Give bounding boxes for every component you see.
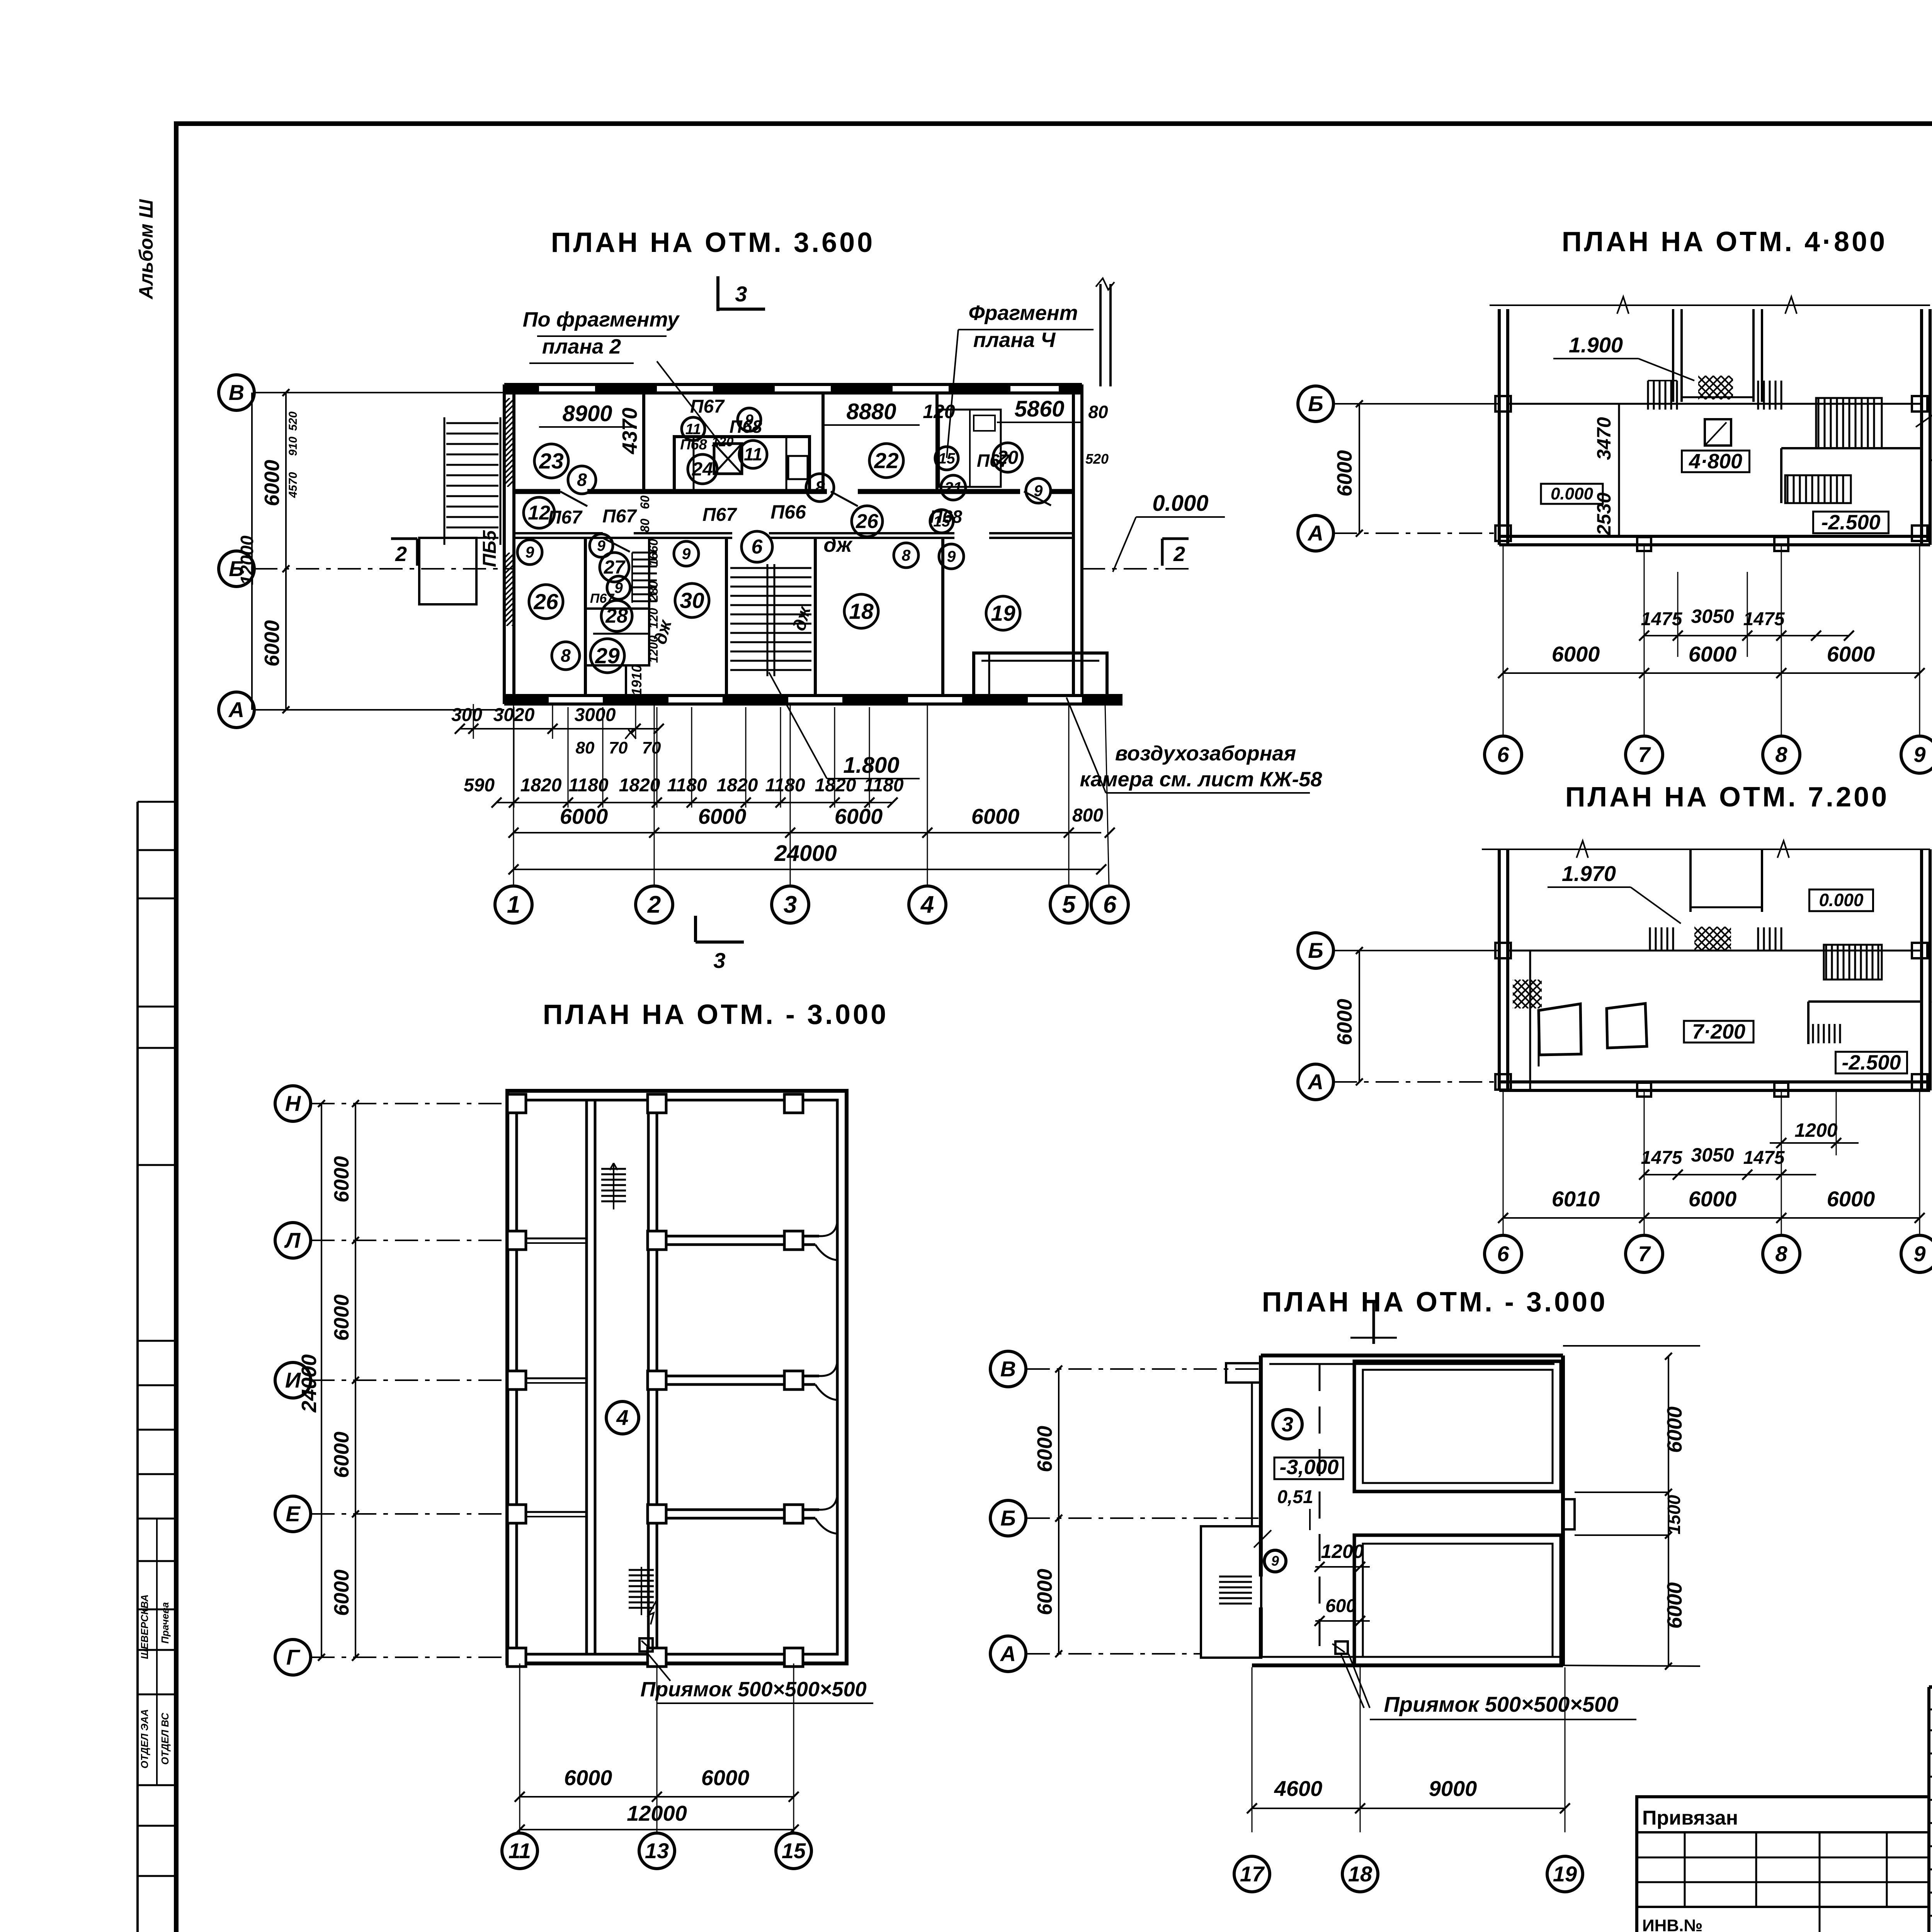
svg-text:А: А <box>228 697 244 722</box>
svg-text:9: 9 <box>1913 1242 1925 1266</box>
svg-text:300: 300 <box>451 705 482 725</box>
svg-text:8: 8 <box>561 646 571 666</box>
svg-text:В: В <box>1000 1357 1016 1381</box>
svg-text:П67: П67 <box>590 591 615 606</box>
svg-text:6000: 6000 <box>698 804 747 828</box>
plan2 bottom dim 6000s <box>1498 642 1925 678</box>
plan4 axis circle 15 <box>776 1833 811 1869</box>
album III vertical label <box>135 199 157 300</box>
svg-text:4370: 4370 <box>618 408 641 454</box>
plan5 tank lower <box>1354 1535 1561 1665</box>
svg-text:П67: П67 <box>548 507 583 528</box>
plan5 left walls and entrance <box>1201 1355 1261 1658</box>
axis row circle B <box>219 551 254 587</box>
section mark 3 bottom <box>696 916 744 973</box>
svg-text:7: 7 <box>1638 1242 1651 1266</box>
svg-text:6000: 6000 <box>1033 1569 1056 1615</box>
svg-text:1.900: 1.900 <box>1569 333 1623 357</box>
plan5 bottom dims <box>1247 1667 1570 1832</box>
dim 120 <box>923 401 955 422</box>
svg-text:12: 12 <box>528 502 550 524</box>
title plan -3.000 left <box>543 999 888 1030</box>
svg-text:Л: Л <box>284 1228 301 1252</box>
svg-text:воздухозаборная: воздухозаборная <box>1115 742 1296 765</box>
svg-text:6000: 6000 <box>701 1765 750 1790</box>
svg-text:1180: 1180 <box>568 775 609 796</box>
plan2 shaft walls <box>1673 309 1762 402</box>
svg-text:6: 6 <box>1497 742 1509 767</box>
svg-text:120: 120 <box>712 435 734 449</box>
svg-text:1180: 1180 <box>667 775 707 796</box>
svg-text:1820: 1820 <box>717 775 758 796</box>
svg-text:Фрагмент: Фрагмент <box>968 301 1078 325</box>
room 12 <box>524 497 554 528</box>
plan3 axis verticals <box>1503 1090 1920 1235</box>
svg-text:8900: 8900 <box>562 401 612 426</box>
plan1 exterior stair left <box>444 417 500 545</box>
plan1 stair flights room 6 <box>730 564 811 676</box>
plan5 bottom wall <box>1252 1657 1563 1665</box>
title plan 4.800 <box>1562 226 1887 257</box>
svg-text:ПЛАН НА ОТМ. - 3.000: ПЛАН НА ОТМ. - 3.000 <box>1262 1287 1607 1318</box>
door mark 9 b <box>607 576 630 599</box>
plan1 bottom small dim chain <box>451 704 664 757</box>
svg-text:280: 280 <box>646 581 660 602</box>
plan2 axis circle 7 <box>1626 736 1663 773</box>
leader note fragment plana 4 <box>947 301 1094 458</box>
room 27 <box>600 553 629 582</box>
plan3 note 1.970 <box>1548 861 1681 923</box>
dim 4370 vertical <box>618 408 641 454</box>
svg-text:Прачева: Прачева <box>159 1602 171 1644</box>
plan2 floor edge line <box>1508 404 1922 536</box>
axis circle 3 <box>772 886 809 923</box>
svg-text:520: 520 <box>1085 451 1109 467</box>
room 15 b <box>930 510 953 533</box>
svg-text:4·800: 4·800 <box>1689 450 1742 473</box>
plan2 top break line <box>1490 297 1930 314</box>
plan2 walls <box>1499 309 1930 545</box>
svg-text:-2.500: -2.500 <box>1821 511 1880 534</box>
svg-text:По фрагменту: По фрагменту <box>523 308 680 331</box>
svg-text:800: 800 <box>1072 805 1103 826</box>
note 1.800 with leader <box>769 672 920 779</box>
svg-text:ПЛАН НА ОТМ. 7.200: ПЛАН НА ОТМ. 7.200 <box>1565 782 1889 813</box>
svg-text:8: 8 <box>577 470 587 490</box>
plan1 corridor upper wall <box>514 489 1073 494</box>
plan1 bottom wall <box>504 696 1122 704</box>
left dim chain 6000/6000 <box>260 389 289 713</box>
section mark 2 right <box>1162 539 1189 566</box>
plan2 stair left of shaft <box>1648 381 1677 410</box>
svg-text:Н: Н <box>285 1091 301 1116</box>
plan3 axis A <box>1298 1064 1499 1100</box>
title plan 7.200 <box>1565 782 1889 813</box>
svg-text:камера см. лист КЖ-58: камера см. лист КЖ-58 <box>1080 768 1322 791</box>
svg-text:6000: 6000 <box>1689 1187 1737 1211</box>
plan2 left dim 6000 <box>1333 400 1363 537</box>
plan3 level box 0.000 <box>1810 889 1873 911</box>
axis row lines <box>254 393 514 710</box>
svg-text:5: 5 <box>1062 891 1076 918</box>
plan2 axis circle 8 <box>1763 736 1800 773</box>
plan2 axis circle 9 <box>1901 736 1932 773</box>
svg-text:ОТДЕЛ ЭАА: ОТДЕЛ ЭАА <box>139 1709 150 1769</box>
plan1 partition room 22 left <box>821 393 825 492</box>
plan3 filter unit 2 <box>1607 1003 1647 1048</box>
plan1 elevator X box <box>714 444 742 474</box>
plan5 top wall <box>1261 1355 1563 1364</box>
plan3 axis circle 9 <box>1901 1235 1932 1272</box>
plan5 axis V <box>990 1351 1261 1387</box>
svg-text:120: 120 <box>646 608 660 629</box>
plan3 left dim 6000 <box>1333 947 1363 1085</box>
left filing strip <box>138 802 176 1932</box>
room 11 <box>739 440 767 468</box>
svg-text:26: 26 <box>533 589 558 614</box>
svg-text:плана 2: плана 2 <box>542 335 621 358</box>
plan3 small stair right <box>1808 1002 1922 1044</box>
plan3 bottom dim 6000s <box>1498 1187 1925 1223</box>
axis row circle A <box>219 692 254 728</box>
plan2 stair right of shaft <box>1758 381 1781 410</box>
plan1 total dim 24000 <box>509 841 1106 874</box>
svg-text:ИНВ.№: ИНВ.№ <box>1642 1916 1702 1932</box>
svg-text:4570: 4570 <box>287 472 299 498</box>
svg-text:Приямок 500×500×500: Приямок 500×500×500 <box>640 1678 866 1701</box>
svg-text:6000: 6000 <box>1689 642 1737 666</box>
plan4 axis circle 13 <box>639 1833 675 1869</box>
svg-text:1180: 1180 <box>765 775 805 796</box>
svg-text:6: 6 <box>1103 891 1117 918</box>
plan1 corridor lower wall <box>514 533 1073 538</box>
plan3 dim 1200 <box>1770 1090 1859 1155</box>
svg-text:9: 9 <box>526 543 534 561</box>
svg-text:8: 8 <box>815 478 825 498</box>
svg-text:1: 1 <box>507 891 520 918</box>
axis circle 4 <box>909 886 946 923</box>
plan5 inner dashed line <box>1319 1364 1321 1657</box>
svg-text:П67: П67 <box>977 451 1010 471</box>
section mark 3 top <box>718 276 765 311</box>
plan5 axis B <box>990 1500 1261 1536</box>
plan5 right wall <box>1561 1355 1565 1665</box>
plan3 column marks <box>1495 943 1927 1097</box>
axis circle 1 <box>495 886 532 923</box>
svg-text:6000: 6000 <box>560 804 608 828</box>
axis circle 5 <box>1050 886 1087 923</box>
stair room 6 <box>742 531 772 562</box>
svg-text:11: 11 <box>685 421 701 437</box>
svg-text:6000: 6000 <box>564 1765 612 1790</box>
plan5 dim 600 <box>1315 1596 1370 1626</box>
svg-text:9: 9 <box>614 580 623 596</box>
plan2 level box 4.800 <box>1682 450 1750 473</box>
svg-text:П67: П67 <box>690 396 725 417</box>
svg-text:0.000: 0.000 <box>1152 491 1208 516</box>
room 11 b <box>682 417 705 440</box>
door mark 8 c <box>806 474 834 502</box>
svg-text:12000: 12000 <box>627 1801 687 1825</box>
svg-text:3: 3 <box>735 282 747 306</box>
svg-text:590: 590 <box>464 775 495 796</box>
room 15 <box>935 447 958 470</box>
plan5 pit <box>1332 1641 1370 1708</box>
plan3 axis B <box>1298 933 1499 968</box>
plan4 outer walls <box>507 1091 847 1663</box>
svg-text:1200: 1200 <box>1321 1541 1364 1562</box>
plan5 room circle 3 <box>1273 1410 1302 1439</box>
plan4 axis L <box>275 1223 507 1258</box>
svg-text:ОТДЕЛ ВС: ОТДЕЛ ВС <box>159 1713 171 1765</box>
plan3 walls <box>1499 849 1930 1090</box>
plan2 axis A <box>1298 515 1499 551</box>
plan3 axis circle 8 <box>1763 1235 1800 1272</box>
svg-text:26: 26 <box>855 510 879 533</box>
door mark 8 d <box>894 543 918 568</box>
svg-text:70: 70 <box>642 738 661 757</box>
title plan 3.600 <box>551 227 875 258</box>
section mark 2 left <box>391 539 417 566</box>
plan4 left dim chain <box>330 1100 359 1661</box>
svg-text:6000: 6000 <box>1033 1426 1056 1472</box>
plan5 axis circle 19 <box>1547 1856 1583 1892</box>
plan5 pit note <box>1370 1692 1636 1719</box>
plan4 columns <box>507 1094 803 1667</box>
svg-text:1820: 1820 <box>815 775 856 796</box>
svg-text:910: 910 <box>287 437 299 456</box>
axis circle 2 <box>636 886 673 923</box>
svg-text:8: 8 <box>1775 1242 1787 1266</box>
svg-text:0,51: 0,51 <box>1277 1487 1313 1507</box>
plan4 axis E <box>275 1496 507 1532</box>
svg-text:23: 23 <box>539 449 564 473</box>
lintel labels corridor <box>548 451 1109 606</box>
svg-text:11: 11 <box>509 1838 531 1863</box>
title block left sub-table <box>1637 1797 1929 1932</box>
plan5 level box -3000 <box>1274 1456 1343 1479</box>
svg-text:24000: 24000 <box>298 1354 321 1413</box>
plan1 left wall <box>504 384 514 704</box>
svg-text:1475: 1475 <box>1743 1148 1785 1168</box>
svg-text:1200: 1200 <box>646 635 660 663</box>
svg-text:6: 6 <box>1497 1242 1509 1266</box>
svg-text:0.000: 0.000 <box>1551 485 1594 503</box>
svg-text:18: 18 <box>849 599 874 624</box>
plan1 small stair near room 27 <box>632 553 657 603</box>
note 0.000 right <box>1113 491 1225 572</box>
plan1 small equipment right of shaft <box>788 456 808 479</box>
svg-text:6000: 6000 <box>260 620 284 667</box>
room 24 <box>688 454 717 484</box>
plan2 column marks <box>1495 396 1927 551</box>
plan2 lower stair <box>1781 448 1922 503</box>
svg-text:6000: 6000 <box>1663 1582 1686 1629</box>
svg-text:3: 3 <box>784 891 797 918</box>
svg-text:6000: 6000 <box>260 460 284 506</box>
svg-text:А: А <box>1307 1070 1323 1094</box>
plan5 left dims <box>1033 1366 1062 1657</box>
plan2 axis circle 6 <box>1485 736 1522 773</box>
door mark 8 <box>568 466 596 494</box>
label PB5 <box>480 530 500 567</box>
plan5 tank upper <box>1354 1361 1561 1492</box>
svg-text:22: 22 <box>874 448 899 473</box>
svg-text:2530: 2530 <box>1593 492 1615 536</box>
svg-text:80: 80 <box>576 738 595 757</box>
svg-text:А: А <box>1000 1641 1016 1666</box>
svg-text:П68: П68 <box>680 437 707 453</box>
plan1 inner door leaves <box>560 492 1051 552</box>
plan5 door mark 9 <box>1254 1530 1286 1572</box>
svg-text:6000: 6000 <box>1827 1187 1875 1211</box>
svg-text:ПЛАН НА ОТМ. - 3.000: ПЛАН НА ОТМ. - 3.000 <box>543 999 888 1030</box>
plan3 axis circle 7 <box>1626 1235 1663 1272</box>
room 23 <box>534 444 568 478</box>
room 21 <box>941 475 966 500</box>
plan4 total 24000 <box>298 1100 325 1661</box>
svg-text:6000: 6000 <box>1663 1406 1686 1453</box>
dim 80 right <box>1088 402 1108 422</box>
svg-text:1.970: 1.970 <box>1562 861 1616 886</box>
plan1 air intake chamber <box>974 653 1107 696</box>
svg-text:12000: 12000 <box>237 536 257 585</box>
floor labels dzh <box>650 533 853 646</box>
axis B dash line right <box>1082 568 1192 570</box>
svg-text:П67: П67 <box>602 506 637 527</box>
svg-text:2: 2 <box>647 891 661 918</box>
plan3 axis circle 6 <box>1485 1235 1522 1272</box>
door mark 9 left <box>517 540 542 565</box>
plan1 partition room 29 <box>585 665 649 696</box>
svg-text:3000: 3000 <box>575 705 616 725</box>
gallery walls above plan <box>1096 278 1114 386</box>
room 26 <box>529 585 563 619</box>
svg-text:19: 19 <box>1553 1862 1577 1886</box>
plan2 axis B <box>1298 386 1499 422</box>
svg-text:1.800: 1.800 <box>843 753 899 778</box>
svg-text:ПЛАН НА ОТМ. 3.600: ПЛАН НА ОТМ. 3.600 <box>551 227 875 258</box>
room 30 <box>675 583 709 617</box>
plan4 stair upper <box>601 1163 626 1209</box>
door mark 9 e <box>939 544 964 569</box>
svg-text:ПЛАН НА ОТМ. 4·800: ПЛАН НА ОТМ. 4·800 <box>1562 226 1887 257</box>
svg-text:Б: Б <box>1000 1506 1016 1530</box>
door mark 8 b <box>552 642 580 670</box>
svg-text:Г: Г <box>286 1645 301 1669</box>
left small dims <box>287 412 299 498</box>
svg-text:120: 120 <box>923 401 955 422</box>
svg-text:7: 7 <box>1638 742 1651 767</box>
svg-text:600: 600 <box>1325 1596 1356 1616</box>
svg-text:6000: 6000 <box>971 804 1020 828</box>
svg-text:17: 17 <box>1240 1862 1265 1886</box>
dim 8900 <box>539 401 634 427</box>
plan3 shaft walls <box>1690 849 1762 912</box>
room 29 <box>590 639 624 673</box>
svg-text:В: В <box>229 380 244 405</box>
svg-text:9: 9 <box>682 545 691 563</box>
plan1 rooms 27/28 box <box>585 538 649 665</box>
svg-text:6000: 6000 <box>330 1570 353 1616</box>
plan4 corridor walls <box>587 1100 657 1654</box>
plan3 level box 7.200 <box>1684 1020 1753 1043</box>
room 18 <box>844 594 878 628</box>
svg-text:1475: 1475 <box>1743 609 1785 629</box>
svg-text:Альбом Ш: Альбом Ш <box>135 199 157 300</box>
plan4 stair lower <box>629 1567 657 1624</box>
note air intake chamber <box>1066 697 1322 793</box>
plan2 note 0.000 right <box>1931 460 1932 502</box>
plan4 bottom dims <box>515 1663 799 1835</box>
svg-text:11: 11 <box>744 444 762 464</box>
svg-text:3050: 3050 <box>1691 1144 1734 1166</box>
svg-text:6000: 6000 <box>1552 642 1600 666</box>
plan1 partition rooms 18/19 <box>941 538 944 696</box>
plan3 level box -2.500 <box>1836 1051 1907 1074</box>
svg-text:1500: 1500 <box>1664 1495 1684 1534</box>
room 19 <box>986 596 1020 630</box>
svg-text:ШЕВЕРСКВА: ШЕВЕРСКВА <box>139 1594 150 1659</box>
svg-text:3050: 3050 <box>1691 605 1734 627</box>
left dim 12000 <box>237 393 257 710</box>
axis circle 6 <box>1091 886 1128 923</box>
plan1 partition toilets left <box>935 393 939 492</box>
svg-text:80: 80 <box>1088 402 1108 422</box>
plan1 top wall <box>504 384 1082 393</box>
plan3 floor edge <box>1508 951 1922 1090</box>
svg-text:Приямок 500×500×500: Приямок 500×500×500 <box>1384 1692 1619 1716</box>
plan3 big stair right <box>1824 945 1882 980</box>
plan5 entrance stair <box>1219 1577 1252 1604</box>
plan2 level box -2.500 <box>1813 511 1889 534</box>
svg-text:3: 3 <box>1282 1413 1293 1436</box>
door mark 9 c <box>674 541 699 566</box>
svg-text:плана Ч: плана Ч <box>973 328 1056 352</box>
svg-text:1660: 1660 <box>646 539 660 566</box>
svg-text:2: 2 <box>395 543 407 566</box>
svg-text:24: 24 <box>692 459 713 480</box>
svg-text:1910: 1910 <box>629 665 645 696</box>
svg-text:13: 13 <box>645 1838 669 1863</box>
svg-text:6000: 6000 <box>330 1156 353 1202</box>
plan4 pit note <box>640 1678 873 1703</box>
svg-text:-2.500: -2.500 <box>1842 1051 1901 1074</box>
plan4 axis circle 11 <box>502 1833 537 1869</box>
room 20 <box>993 443 1022 472</box>
svg-text:6000: 6000 <box>1333 450 1356 497</box>
plan5 section mark top <box>1350 1301 1397 1344</box>
plan4 axis I <box>275 1362 507 1398</box>
plan5 axis circle 17 <box>1234 1856 1270 1892</box>
svg-text:8: 8 <box>902 546 911 564</box>
plan2 note 1.900 <box>1553 333 1694 381</box>
plan1 axis dim chain 6000 <box>509 804 1115 838</box>
plan2 big stair right <box>1816 398 1882 448</box>
plan4 right section walls <box>657 1219 837 1534</box>
plan2 axis verticals <box>1503 545 1920 736</box>
svg-text:ПБ5: ПБ5 <box>480 530 500 567</box>
svg-text:60: 60 <box>638 495 652 509</box>
leader note po fragmentu plana 2 <box>523 308 721 444</box>
small dims left column <box>629 495 660 696</box>
svg-text:9: 9 <box>947 548 956 565</box>
plan2 inner vert dims 3470/2530 <box>1593 417 1615 536</box>
svg-text:70: 70 <box>609 738 628 757</box>
svg-text:6000: 6000 <box>1827 642 1875 666</box>
svg-text:8: 8 <box>1775 742 1787 767</box>
svg-text:19: 19 <box>991 601 1015 626</box>
